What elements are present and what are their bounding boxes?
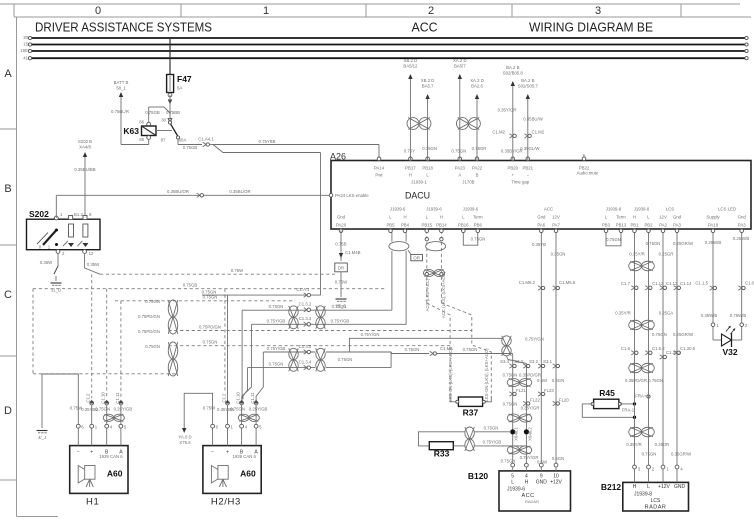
svg-text:H: H [409, 173, 412, 178]
svg-text:PB15: PB15 [422, 222, 433, 227]
svg-text:0.25W/B: 0.25W/B [705, 240, 722, 245]
svg-text:BATT B: BATT B [114, 80, 129, 85]
svg-text:A60: A60 [107, 469, 123, 479]
svg-text:PB13: PB13 [616, 222, 627, 227]
svg-text:PB16: PB16 [458, 222, 469, 227]
svg-text:A: A [4, 68, 12, 80]
svg-text:DR: DR [338, 266, 344, 271]
svg-text:ACC: ACC [544, 207, 553, 212]
svg-text:B120: B120 [468, 471, 489, 481]
svg-text:J1939-8: J1939-8 [606, 207, 622, 212]
svg-text:PA2: PA2 [659, 222, 667, 227]
svg-text:C1.6: C1.6 [621, 346, 631, 351]
svg-text:LCS: LCS [666, 207, 674, 212]
svg-text:PB4: PB4 [401, 222, 410, 227]
svg-text:J1939-6: J1939-6 [463, 207, 479, 212]
svg-text:0.75GN: 0.75GN [606, 237, 621, 242]
svg-text:RADAR: RADAR [525, 499, 539, 504]
svg-text:0.75W: 0.75W [231, 268, 244, 273]
svg-text:0.75GN: 0.75GN [269, 304, 284, 309]
svg-text:C: C [4, 289, 12, 301]
svg-text:LKS-ON (LKS), (LKS+ACC): LKS-ON (LKS), (LKS+ACC) [484, 348, 489, 402]
svg-text:5: 5 [511, 473, 514, 479]
svg-text:0.75PD/GN: 0.75PD/GN [138, 329, 160, 334]
svg-text:12: 12 [89, 251, 94, 256]
svg-text:D: D [4, 405, 12, 417]
svg-text:Term: Term [473, 215, 483, 220]
svg-text:PA19: PA19 [708, 222, 719, 227]
svg-text:PA14: PA14 [374, 166, 385, 171]
svg-text:0.75GR: 0.75GR [472, 146, 487, 151]
svg-text:0.25GR/W: 0.25GR/W [673, 241, 694, 246]
svg-text:X640.1: X640.1 [514, 427, 519, 441]
svg-text:1939 CAN 6: 1939 CAN 6 [232, 454, 256, 459]
svg-text:J1939-6: J1939-6 [426, 207, 442, 212]
svg-text:A60: A60 [240, 469, 256, 479]
svg-text:Gnd: Gnd [337, 215, 346, 220]
svg-text:12V: 12V [659, 215, 667, 220]
svg-text:LKS-ON (LKS), (LKS+ACC): LKS-ON (LKS), (LKS+ACC) [448, 348, 453, 402]
svg-text:ACC: ACC [521, 493, 534, 499]
svg-text:PB14: PB14 [436, 222, 447, 227]
svg-text:0.75GN: 0.75GN [484, 426, 499, 431]
svg-text:S3.4: S3.4 [500, 359, 509, 364]
svg-text:0.75Y/GR: 0.75Y/GR [520, 455, 539, 460]
svg-text:Audio mute: Audio mute [577, 171, 599, 176]
svg-text:58_1: 58_1 [116, 86, 126, 91]
svg-text:C1.2: C1.2 [222, 393, 227, 403]
svg-text:0.75GN: 0.75GN [230, 407, 245, 412]
svg-text:C1.A4.1: C1.A4.1 [198, 137, 214, 142]
svg-text:BA5.7: BA5.7 [422, 84, 434, 89]
svg-text:C1.10: C1.10 [236, 392, 241, 404]
svg-text:C1.M6.5: C1.M6.5 [559, 280, 576, 285]
svg-text:S02/B05.8: S02/B05.8 [503, 71, 524, 76]
svg-text:2: 2 [428, 5, 434, 17]
svg-text:R37: R37 [463, 408, 479, 418]
svg-text:C1.M2: C1.M2 [492, 130, 505, 135]
svg-text:60A: 60A [179, 138, 187, 143]
svg-text:0.75BB: 0.75BB [166, 110, 180, 115]
svg-text:0.35BU/W: 0.35BU/W [523, 117, 544, 122]
svg-text:0.35BL/OR: 0.35BL/OR [229, 189, 250, 194]
svg-text:0.75GN: 0.75GN [95, 407, 110, 412]
svg-text:PA22: PA22 [472, 166, 483, 171]
svg-text:0.75GN: 0.75GN [422, 146, 437, 151]
svg-text:C1.30.6: C1.30.6 [680, 346, 696, 351]
svg-text:R33: R33 [434, 449, 450, 459]
svg-text:FL21: FL21 [516, 388, 526, 393]
svg-text:X640.2: X640.2 [528, 427, 533, 441]
svg-text:0.35Y/R: 0.35Y/R [626, 442, 642, 447]
svg-text:0.25W/B: 0.25W/B [733, 236, 750, 241]
svg-text:XA.2 D: XA.2 D [453, 58, 467, 63]
svg-text:S3.2: S3.2 [529, 359, 538, 364]
svg-text:0.25GA: 0.25GA [659, 311, 674, 316]
svg-text:+12V: +12V [658, 484, 670, 490]
svg-text:0.75Y: 0.75Y [404, 149, 415, 154]
svg-text:0.75GN: 0.75GN [202, 289, 217, 294]
svg-text:0.35W: 0.35W [40, 260, 53, 265]
svg-text:BA5/12: BA5/12 [403, 64, 418, 69]
svg-text:0.35PD/GR,0.75GN: 0.35PD/GR,0.75GN [625, 378, 663, 383]
svg-text:C1.7: C1.7 [621, 281, 631, 286]
svg-text:ACC (LKS), (LKS+ACC): ACC (LKS), (LKS+ACC) [441, 271, 446, 318]
svg-text:0.25Y/GB: 0.25Y/GB [114, 407, 133, 412]
svg-text:0.35PD/GR: 0.35PD/GR [519, 373, 541, 378]
svg-text:+: + [90, 450, 93, 456]
svg-text:0.75GB: 0.75GB [145, 110, 160, 115]
svg-text:0.75GN: 0.75GN [503, 373, 518, 378]
svg-text:B212: B212 [601, 482, 622, 492]
svg-text:0: 0 [95, 5, 101, 17]
svg-text:0.35Y/GR: 0.35Y/GR [521, 406, 540, 411]
svg-text:XB.2 D: XB.2 D [421, 78, 435, 83]
svg-text:S02/S05.7: S02/S05.7 [518, 84, 539, 89]
svg-text:0.75GN: 0.75GN [652, 332, 667, 337]
svg-text:GND: GND [536, 480, 548, 486]
svg-text:Gnd: Gnd [738, 215, 747, 220]
svg-text:0.25GR/W: 0.25GR/W [673, 332, 694, 337]
svg-text:0.75W: 0.75W [203, 406, 216, 411]
svg-text:0.75W: 0.75W [70, 406, 83, 411]
svg-text:R45: R45 [599, 388, 615, 398]
svg-text:0.5GN: 0.5GN [552, 378, 564, 383]
svg-text:H: H [403, 215, 406, 220]
svg-text:FL23: FL23 [544, 388, 554, 393]
svg-text:0.75GN: 0.75GN [405, 347, 420, 352]
svg-text:0.35W/B: 0.35W/B [701, 313, 718, 318]
svg-text:−: − [211, 450, 214, 456]
svg-text:15E: 15E [20, 48, 28, 53]
svg-text:0.75Y/GB: 0.75Y/GB [483, 440, 502, 445]
svg-text:0.75GN: 0.75GN [501, 459, 516, 464]
svg-text:YA.0 D: YA.0 D [178, 435, 191, 440]
svg-text:C1.12: C1.12 [652, 281, 664, 286]
svg-text:0.35YB: 0.35YB [532, 242, 546, 247]
svg-text:H1: H1 [86, 497, 99, 508]
svg-text:C1.5.2: C1.5.2 [652, 346, 665, 351]
svg-text:H: H [633, 215, 636, 220]
svg-text:FL20: FL20 [559, 398, 569, 403]
svg-text:J1939-8: J1939-8 [634, 207, 650, 212]
svg-text:ACC (LKS+ACC): ACC (LKS+ACC) [425, 278, 430, 311]
svg-text:0.75W: 0.75W [335, 280, 348, 285]
svg-text:S202: S202 [29, 209, 49, 219]
svg-text:PB2: PB2 [644, 222, 653, 227]
svg-text:PB1: PB1 [630, 222, 639, 227]
svg-text:0.75GN: 0.75GN [145, 344, 160, 349]
svg-text:1939 CAN 6: 1939 CAN 6 [99, 454, 123, 459]
svg-text:S202 B: S202 B [78, 139, 92, 144]
svg-text:0.75PD/GN: 0.75PD/GN [199, 324, 221, 329]
svg-text:0.35W: 0.35W [87, 262, 100, 267]
svg-text:0.75W/B: 0.75W/B [730, 313, 747, 318]
svg-text:0.35BU/BB: 0.35BU/BB [74, 167, 95, 172]
svg-text:4/_J: 4/_J [38, 435, 46, 440]
svg-text:0.35GL/W: 0.35GL/W [520, 146, 540, 151]
svg-text:0.75GN: 0.75GN [503, 402, 518, 407]
svg-text:PB6: PB6 [474, 222, 483, 227]
svg-text:C1.1.5: C1.1.5 [695, 281, 708, 286]
svg-text:BA.2 B: BA.2 B [506, 65, 520, 70]
svg-text:S3.1: S3.1 [543, 359, 552, 364]
svg-text:87: 87 [161, 138, 166, 143]
svg-text:B: B [4, 183, 11, 195]
svg-text:PA23: PA23 [455, 166, 466, 171]
svg-text:FRA-1: FRA-1 [622, 407, 635, 412]
svg-text:C1.M4B: C1.M4B [345, 250, 361, 255]
svg-text:0.35Y/R: 0.35Y/R [615, 311, 631, 316]
svg-text:H: H [525, 480, 529, 486]
svg-text:Pwt: Pwt [375, 173, 383, 178]
svg-text:PA7: PA7 [552, 222, 560, 227]
svg-text:0.75GN: 0.75GN [269, 362, 284, 367]
svg-text:15: 15 [23, 42, 28, 47]
svg-text:Gnd: Gnd [537, 215, 546, 220]
svg-text:C1.14: C1.14 [680, 281, 692, 286]
svg-text:ACC: ACC [412, 20, 438, 35]
svg-text:F47: F47 [177, 74, 192, 84]
svg-text:0.35BU/OR: 0.35BU/OR [167, 189, 189, 194]
svg-text:J1939-6: J1939-6 [390, 207, 406, 212]
svg-text:0.75B: 0.75B [335, 242, 346, 247]
svg-text:DRIVER ASSISTANCE SYSTEMS: DRIVER ASSISTANCE SYSTEMS [35, 20, 212, 35]
svg-text:41: 41 [23, 55, 28, 60]
svg-text:PB18: PB18 [422, 166, 433, 171]
svg-text:C1.M2: C1.M2 [532, 130, 545, 135]
svg-text:0.75GB: 0.75GB [183, 145, 198, 150]
svg-text:PA3: PA3 [738, 222, 746, 227]
svg-text:C1.0: C1.0 [745, 281, 754, 286]
svg-text:C1.11: C1.11 [250, 392, 255, 404]
svg-text:C1.M6.2: C1.M6.2 [519, 280, 536, 285]
svg-text:PB20: PB20 [508, 166, 519, 171]
svg-text:K63: K63 [123, 126, 139, 136]
svg-text:LCS LED: LCS LED [718, 207, 736, 212]
svg-text:86: 86 [139, 120, 144, 125]
svg-text:PA6: PA6 [537, 222, 545, 227]
svg-text:0.75GN: 0.75GN [338, 357, 353, 362]
svg-text:H: H [440, 215, 443, 220]
svg-text:30: 30 [161, 118, 166, 123]
svg-text:BA.2 B: BA.2 B [521, 78, 535, 83]
svg-text:PA3: PA3 [673, 222, 681, 227]
svg-text:C1.2: C1.2 [86, 393, 91, 403]
svg-text:PB5: PB5 [386, 222, 395, 227]
svg-text:5A: 5A [177, 86, 182, 91]
svg-text:0.75PD/GN: 0.75PD/GN [138, 314, 160, 319]
svg-text:PB21: PB21 [523, 166, 534, 171]
svg-text:0.75GN: 0.75GN [646, 241, 661, 246]
svg-text:30: 30 [23, 35, 28, 40]
svg-text:Gnd: Gnd [673, 215, 682, 220]
svg-text:2T_C: 2T_C [336, 304, 347, 309]
svg-text:J1939-6: J1939-6 [507, 486, 525, 492]
svg-text:0.75BL/R: 0.75BL/R [111, 109, 129, 114]
svg-text:85: 85 [139, 137, 144, 142]
svg-text:PA20: PA20 [336, 222, 347, 227]
svg-text:0.35GR/W: 0.35GR/W [671, 452, 692, 457]
svg-text:A: A [458, 173, 461, 178]
svg-text:0.75GN: 0.75GN [145, 299, 160, 304]
svg-text:C1.11: C1.11 [115, 392, 120, 404]
svg-text:L: L [511, 480, 514, 486]
svg-text:V32: V32 [722, 347, 737, 357]
svg-text:Supply: Supply [706, 215, 720, 220]
svg-text:PB17: PB17 [405, 166, 416, 171]
svg-text:C1.13: C1.13 [666, 281, 678, 286]
svg-text:H: H [633, 484, 637, 490]
svg-text:LCS: LCS [651, 498, 661, 504]
svg-text:XB.2 D: XB.2 D [404, 58, 418, 63]
svg-text:GND: GND [674, 484, 686, 490]
svg-text:0.35Y/GR: 0.35Y/GR [498, 108, 517, 113]
svg-text:1: 1 [263, 5, 269, 17]
svg-text:DACU: DACU [405, 191, 430, 201]
svg-text:0.75GN: 0.75GN [203, 340, 218, 345]
svg-text:J1939-1: J1939-1 [411, 180, 427, 185]
svg-text:X75.8: X75.8 [179, 440, 191, 445]
svg-text:−: − [77, 450, 80, 456]
svg-text:0.75GN: 0.75GN [471, 236, 486, 241]
svg-text:0.25Y/GB: 0.25Y/GB [249, 407, 268, 412]
svg-text:B: B [583, 154, 586, 159]
svg-text:XA4/8: XA4/8 [79, 145, 91, 150]
svg-text:0.75Y/GN: 0.75Y/GN [361, 332, 380, 337]
svg-text:+12V: +12V [550, 480, 562, 486]
svg-text:3: 3 [595, 5, 601, 17]
svg-text:OR: OR [413, 256, 419, 261]
svg-text:0.25GR: 0.25GR [659, 251, 674, 256]
svg-text:L: L [647, 484, 650, 490]
svg-text:0.75Y/GB: 0.75Y/GB [331, 319, 350, 324]
svg-text:PA24 LKS enable: PA24 LKS enable [335, 193, 369, 198]
svg-text:Time gap: Time gap [511, 180, 529, 185]
svg-text:PB3: PB3 [602, 222, 611, 227]
svg-text:10: 10 [553, 473, 559, 479]
svg-text:0.75GB: 0.75GB [183, 283, 198, 288]
svg-text:BA5/7: BA5/7 [454, 64, 466, 69]
svg-text:12V: 12V [552, 215, 560, 220]
svg-text:C1.10: C1.10 [101, 392, 106, 404]
svg-text:0.75GN: 0.75GN [451, 149, 466, 154]
svg-text:B1.2: B1.2 [74, 212, 83, 217]
svg-text:FL22: FL22 [530, 398, 540, 403]
svg-text:4: 4 [525, 473, 528, 479]
svg-text:0.35OR: 0.35OR [655, 442, 670, 447]
svg-text:XA.2 D: XA.2 D [470, 78, 484, 83]
svg-text:C1.3.2: C1.3.2 [299, 302, 312, 307]
svg-text:B: B [476, 173, 479, 178]
svg-text:C1.3.0: C1.3.0 [299, 344, 312, 349]
svg-text:0.75GN: 0.75GN [642, 452, 657, 457]
svg-text:0.75Y/GB: 0.75Y/GB [267, 346, 286, 351]
svg-text:WIRING DIAGRAM BE: WIRING DIAGRAM BE [529, 20, 653, 35]
svg-text:+: + [226, 450, 229, 456]
svg-text:0.75YBB: 0.75YBB [259, 139, 276, 144]
svg-text:J1939-8: J1939-8 [634, 492, 652, 498]
svg-text:S3.3: S3.3 [514, 359, 523, 364]
svg-text:0.75GN: 0.75GN [463, 347, 478, 352]
svg-text:BA2.6: BA2.6 [471, 84, 483, 89]
svg-text:C1.3.3: C1.3.3 [299, 316, 312, 321]
svg-text:0.35GN: 0.35GN [551, 252, 566, 257]
svg-text:C1.3.4: C1.3.4 [299, 360, 312, 365]
svg-text:0.75Y/GB: 0.75Y/GB [267, 318, 286, 323]
svg-text:9: 9 [540, 473, 543, 479]
svg-text:0.5GN: 0.5GN [552, 456, 564, 461]
svg-text:0.5W: 0.5W [537, 378, 548, 383]
svg-text:C1.A.1: C1.A.1 [296, 287, 310, 292]
svg-text:0.35Y/R: 0.35Y/R [629, 251, 645, 256]
svg-text:H2/H3: H2/H3 [211, 497, 241, 508]
svg-text:RADAR: RADAR [645, 505, 667, 511]
svg-text:Term: Term [616, 215, 626, 220]
svg-text:J170B: J170B [462, 180, 474, 185]
